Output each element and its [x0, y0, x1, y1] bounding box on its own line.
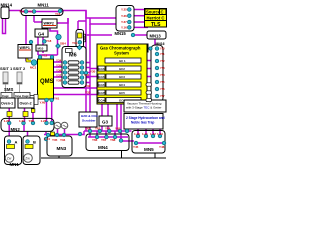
svg-text:Y50: Y50 [160, 47, 165, 51]
svg-text:Y11: Y11 [28, 10, 34, 14]
svg-text:Y31: Y31 [84, 73, 90, 77]
svg-text:Y12: Y12 [42, 54, 48, 58]
svg-text:GC6: GC6 [119, 99, 125, 103]
svg-text:Y18: Y18 [46, 39, 52, 43]
svg-text:Y36: Y36 [56, 69, 62, 73]
svg-text:SMS: SMS [4, 87, 13, 92]
svg-text:Zw: Zw [7, 157, 12, 161]
svg-text:Y61: Y61 [54, 97, 60, 101]
svg-text:MN13: MN13 [150, 33, 162, 38]
svg-text:Y35: Y35 [56, 64, 62, 68]
svg-text:A: A [15, 140, 18, 145]
svg-text:QMS: QMS [40, 79, 54, 85]
svg-text:C: C [161, 10, 164, 15]
svg-text:MN1: MN1 [10, 162, 20, 167]
svg-text:Y53: Y53 [160, 66, 165, 70]
svg-text:TLS: TLS [151, 22, 161, 28]
svg-text:Y1b: Y1b [72, 41, 78, 45]
svg-text:Y34: Y34 [56, 59, 62, 63]
svg-text:MN2: MN2 [11, 127, 21, 132]
svg-text:WRP2: WRP2 [44, 22, 54, 26]
svg-text:Capi: Capi [2, 94, 9, 98]
svg-text:GC#4: GC#4 [98, 83, 106, 87]
svg-text:GC2: GC2 [119, 67, 125, 71]
svg-text:Y62: Y62 [85, 126, 91, 130]
svg-text:MN16: MN16 [156, 42, 165, 46]
svg-text:GC#5: GC#5 [98, 91, 106, 95]
svg-text:Y46: Y46 [159, 145, 165, 149]
svg-text:Y28: Y28 [29, 119, 35, 123]
svg-text:Scrubber: Scrubber [82, 119, 96, 123]
svg-text:1.23: 1.23 [41, 119, 47, 123]
svg-text:Y68: Y68 [110, 138, 116, 142]
svg-text:Inne Capi: Inne Capi [15, 94, 29, 98]
svg-text:Zw: Zw [25, 157, 30, 161]
svg-text:1.34: 1.34 [44, 137, 50, 141]
svg-text:GC4: GC4 [119, 83, 125, 87]
svg-text:Y34: Y34 [60, 138, 66, 142]
svg-text:Y30: Y30 [90, 70, 96, 74]
svg-text:Y57: Y57 [160, 94, 165, 98]
svg-text:Y65: Y65 [115, 126, 121, 130]
svg-text:2 Stage Hydrocarbon and: 2 Stage Hydrocarbon and [126, 116, 165, 120]
svg-text:Y.37: Y.37 [121, 20, 127, 24]
svg-text:Source: Source [146, 10, 161, 15]
svg-text:Y.16: Y.16 [121, 26, 127, 30]
svg-text:Y63: Y63 [95, 126, 101, 130]
svg-text:Y64: Y64 [105, 126, 111, 130]
svg-text:Y51: Y51 [160, 52, 165, 56]
svg-text:Oven-1: Oven-1 [1, 102, 13, 106]
svg-text:GC3: GC3 [119, 75, 125, 79]
svg-text:1.42: 1.42 [150, 132, 156, 136]
svg-text:MC1: MC1 [30, 66, 37, 70]
svg-text:Y55: Y55 [160, 80, 165, 84]
svg-text:Y.35: Y.35 [121, 8, 127, 12]
svg-text:MN14: MN14 [1, 2, 13, 7]
svg-text:Y16: Y16 [55, 12, 61, 16]
svg-text:GC5: GC5 [119, 91, 125, 95]
svg-text:System: System [114, 51, 129, 56]
svg-text:MN11: MN11 [38, 2, 50, 7]
svg-text:GC#3: GC#3 [98, 75, 106, 79]
svg-text:GC 1: GC 1 [119, 59, 126, 63]
svg-text:M10: M10 [38, 47, 44, 51]
svg-text:1.21: 1.21 [19, 119, 25, 123]
svg-text:1.40: 1.40 [134, 132, 140, 136]
svg-text:Y37: Y37 [56, 74, 62, 78]
svg-text:Y45: Y45 [133, 145, 139, 149]
svg-text:Y67: Y67 [101, 138, 107, 142]
svg-text:B: B [33, 140, 36, 145]
svg-text:MN4: MN4 [98, 145, 108, 150]
svg-text:SSIT 1: SSIT 1 [0, 66, 13, 71]
svg-text:1.41: 1.41 [142, 132, 148, 136]
svg-text:Y10: Y10 [19, 10, 25, 14]
svg-text:M6: M6 [69, 53, 77, 59]
svg-text:Y66: Y66 [92, 138, 98, 142]
svg-text:SB4: SB4 [60, 42, 66, 46]
svg-text:H2O & CO2: H2O & CO2 [81, 114, 98, 118]
svg-text:Y32: Y32 [85, 84, 91, 88]
svg-text:Oven-2: Oven-2 [20, 102, 32, 106]
svg-text:G3: G3 [102, 120, 109, 125]
svg-text:Y38: Y38 [56, 79, 62, 83]
svg-text:Herriot C: Herriot C [147, 16, 165, 21]
svg-text:Y35: Y35 [52, 138, 58, 142]
svg-text:Y56: Y56 [160, 87, 165, 91]
svg-text:Noble Gas Trap: Noble Gas Trap [131, 121, 154, 125]
svg-text:GC#6: GC#6 [98, 99, 106, 103]
svg-text:Y54: Y54 [160, 73, 165, 77]
svg-text:Y33: Y33 [85, 91, 91, 95]
svg-text:WRP1: WRP1 [20, 46, 30, 50]
svg-text:1.43: 1.43 [157, 132, 163, 136]
svg-text:Y.36: Y.36 [121, 14, 127, 18]
svg-text:MN15: MN15 [115, 31, 127, 36]
svg-text:1.20: 1.20 [4, 119, 10, 123]
svg-text:SSIT 2: SSIT 2 [13, 66, 26, 71]
svg-text:MN5: MN5 [144, 147, 154, 152]
svg-text:GC#2: GC#2 [98, 67, 106, 71]
svg-text:MN3: MN3 [57, 146, 67, 151]
svg-text:Y.60: Y.60 [40, 101, 46, 105]
svg-text:Y52: Y52 [160, 59, 165, 63]
svg-text:G4: G4 [38, 32, 45, 37]
svg-text:with 3-Stage TEC & Getter: with 3-Stage TEC & Getter [126, 106, 161, 110]
